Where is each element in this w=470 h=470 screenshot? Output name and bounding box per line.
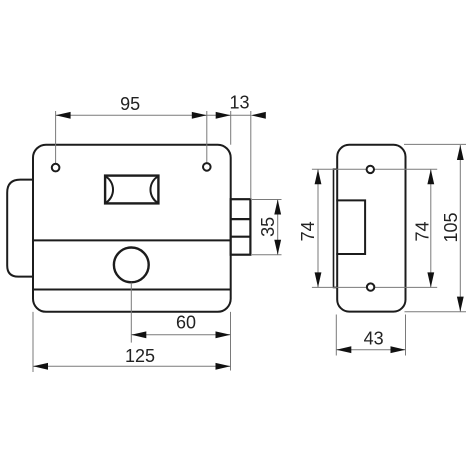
svg-text:35: 35 [258, 217, 278, 237]
body divide line lower [33, 289, 231, 291]
screw holes drawn last so extension lines stop at them [52, 163, 375, 291]
arrow 35 top [274, 200, 281, 215]
screw hole front left [52, 164, 60, 172]
extension line bolt right edge (13) [250, 111, 252, 199]
screw hole front right [203, 163, 211, 171]
extension line side bottom holes (74,74) [312, 286, 367, 288]
left tab protrusion of lock body (front view) [7, 180, 33, 277]
arrow 60 right [216, 331, 231, 338]
arrow 13 left (outside, pointing right) [216, 112, 231, 119]
dimension and extension lines (thin gray) [33, 111, 466, 372]
svg-text:43: 43 [364, 328, 384, 348]
arrow 43 right [391, 346, 406, 353]
bolt (latch) on right side [231, 199, 251, 255]
svg-text:105: 105 [441, 212, 461, 242]
extension line side left (43) [335, 315, 337, 356]
svg-text:60: 60 [176, 313, 196, 333]
dimension line 74 left [317, 169, 319, 287]
slot left concave arc [106, 176, 114, 203]
arrow 125 right [216, 363, 231, 370]
arrow 74 right bottom [427, 272, 434, 287]
dimension line 13 with outside arrows tails [207, 114, 231, 116]
extension line body right edge up (13) [230, 111, 232, 145]
arrow 125 left [33, 363, 48, 370]
dimension line 60 [131, 334, 230, 336]
svg-text:74: 74 [298, 221, 318, 241]
arrow 74 left top [315, 169, 322, 184]
screw hole side top [367, 166, 374, 173]
dimension line 125 [33, 365, 231, 367]
arrow 105 top [457, 145, 464, 160]
bolt box notch (side view) [336, 200, 365, 254]
bolt divider 2 [231, 236, 251, 238]
arrow 74 right top [427, 169, 434, 184]
screw hole side bottom [367, 283, 374, 290]
dimension line 95 [56, 114, 207, 116]
svg-text:74: 74 [412, 221, 432, 241]
extension line side top holes (74,74) [312, 168, 367, 170]
extension line side body bottom (105) [405, 311, 467, 313]
dimension line 35 [277, 200, 279, 255]
arrow 35 bottom [274, 240, 281, 255]
arrow 105 bottom [457, 297, 464, 312]
extension line left screw hole (95) [55, 111, 57, 163]
dimension line 74 right [430, 169, 432, 287]
extension line side right (43) [405, 315, 407, 356]
dimension labels [120, 93, 461, 366]
bolt divider 1 [231, 218, 251, 220]
extension line right screw hole (95/13) [206, 111, 208, 163]
svg-text:95: 95 [120, 94, 140, 114]
arrow 95 right [192, 112, 207, 119]
cylinder slot rectangle [105, 176, 158, 204]
body divide line upper [33, 239, 231, 241]
dimension line 105 [459, 145, 461, 312]
knob circle [114, 248, 149, 283]
extension line circle center (60) [130, 283, 132, 343]
extension line body right bottom (60/125) [230, 312, 232, 371]
svg-text:13: 13 [229, 93, 249, 113]
lock body front view outline [33, 145, 231, 312]
extension line bolt top (35) [252, 199, 282, 201]
dimension line 43 [336, 349, 405, 351]
arrow 95 left [56, 112, 71, 119]
arrow 60 left [131, 331, 146, 338]
extension line body left bottom (125) [32, 312, 34, 372]
extension line side body top (105) [404, 143, 466, 145]
svg-text:125: 125 [125, 346, 155, 366]
arrowheads [33, 112, 464, 370]
extension line bolt bottom (35) [252, 254, 282, 256]
arrow 74 left bottom [315, 272, 322, 287]
strike plate strip (side view) [334, 169, 338, 287]
arrow 13 right (outside, pointing left) [251, 112, 266, 119]
arrow 43 left [336, 346, 351, 353]
lock body side view outline [337, 145, 405, 312]
slot right concave arc [150, 176, 158, 203]
